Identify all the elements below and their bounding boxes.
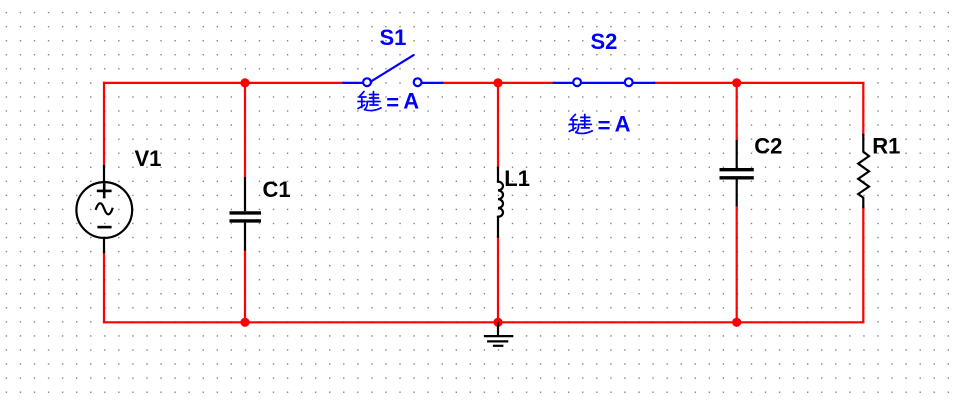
svg-text:S1: S1 <box>380 25 407 50</box>
switch S1 (open) <box>344 55 443 86</box>
wire: bottom rail <box>104 207 863 322</box>
svg-text:V1: V1 <box>135 146 162 171</box>
value label S1: 键 = A <box>358 92 381 111</box>
svg-text:A: A <box>403 88 419 113</box>
value label S2: 键 = A <box>569 114 592 133</box>
svg-text:A: A <box>615 112 631 137</box>
svg-text:C1: C1 <box>263 177 291 202</box>
wire: L1 branch bottom <box>497 237 499 323</box>
inductor L1 <box>498 168 503 237</box>
capacitor C1 <box>230 177 262 250</box>
junction top-right (C2/top rail) <box>732 78 741 87</box>
svg-text:=: = <box>386 90 399 115</box>
junction bottom-right (C2/bottom rail) <box>732 318 741 327</box>
junction top-middle (L1/top rail) <box>493 78 502 87</box>
wire: L1 branch top <box>497 83 499 168</box>
wire: left vertical lower (V1 minus lead to bottom rail) <box>103 252 105 322</box>
junction bottom-middle (ground node) <box>493 318 502 327</box>
wire: C2 branch bottom <box>736 206 738 322</box>
svg-text:L1: L1 <box>504 166 530 191</box>
resistor R1 <box>858 135 869 207</box>
switch S2 (closed) <box>554 78 654 86</box>
svg-text:R1: R1 <box>872 133 900 158</box>
wire: C1 branch top <box>244 83 246 177</box>
wire: top rail right segment (S2 right to R1 corner) <box>654 83 863 135</box>
svg-text:S2: S2 <box>591 29 618 54</box>
wire: C2 branch top <box>736 83 738 140</box>
wire: top rail left segment (V1 top to S1 left) <box>104 82 344 84</box>
wire: C1 branch bottom <box>244 251 246 323</box>
wire: left vertical upper (top rail to V1 plus lead) <box>103 83 105 166</box>
junction top-left (C1/top rail) <box>240 78 249 87</box>
AC source V1 <box>76 166 132 252</box>
ground symbol <box>484 322 513 346</box>
svg-text:=: = <box>598 113 611 138</box>
svg-text:C2: C2 <box>754 133 782 158</box>
junction bottom-left (C1/bottom rail) <box>240 318 249 327</box>
capacitor C2 <box>720 140 754 206</box>
wire: top rail middle segment (S1 right to S2 left) <box>442 82 554 84</box>
